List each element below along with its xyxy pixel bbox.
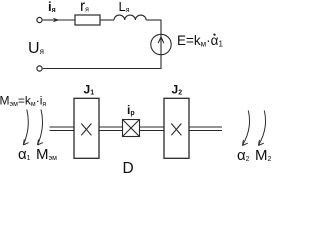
curved arrow alpha2 <box>242 111 249 146</box>
wire right vertical lower <box>160 55 162 69</box>
wire top from terminal to resistor <box>43 19 75 21</box>
wire bottom <box>43 68 162 70</box>
wire right vertical upper <box>160 20 162 36</box>
svg-text:iя: iя <box>48 0 56 14</box>
svg-text:Lя: Lя <box>119 0 130 14</box>
inertia J2 <box>164 98 189 158</box>
resistor r_я <box>75 15 100 25</box>
shaft segment J1 to ip <box>99 127 123 131</box>
svg-text:Мэм: Мэм <box>36 146 57 163</box>
current arrow i_я <box>44 18 60 23</box>
svg-text:α2: α2 <box>237 147 250 164</box>
gear box i_p <box>123 120 140 137</box>
shaft segment right of J2 <box>189 127 222 131</box>
svg-text:Uя: Uя <box>28 40 44 57</box>
derivative dot over alpha <box>213 34 215 36</box>
inertia J1 <box>74 98 99 158</box>
curved arrow alpha1 <box>23 110 28 146</box>
X mark J2 <box>171 124 181 136</box>
svg-text:α1: α1 <box>18 146 31 163</box>
svg-text:rя: rя <box>80 0 89 15</box>
svg-text:М2: М2 <box>255 147 272 164</box>
svg-text:Мэм=kм·iя: Мэм=kм·iя <box>0 94 46 109</box>
inductor L_я <box>114 15 146 20</box>
curved arrow M2 <box>258 111 265 146</box>
svg-text:J1: J1 <box>84 83 95 97</box>
wire resistor to inductor <box>100 19 114 21</box>
svg-text:D: D <box>123 160 134 173</box>
shaft segment left of J1 <box>50 127 75 131</box>
terminal lower input <box>37 66 42 71</box>
svg-text:iр: iр <box>127 103 135 117</box>
X mark J1 <box>81 124 91 136</box>
shaft segment ip to J2 <box>140 127 165 131</box>
svg-text:J2: J2 <box>172 83 183 97</box>
svg-text:E=kм·α1: E=kм·α1 <box>177 33 223 49</box>
curved arrow M_эм <box>38 110 43 146</box>
EMF source E <box>151 34 171 54</box>
wire inductor to corner <box>146 19 161 21</box>
terminal upper input <box>37 17 42 22</box>
